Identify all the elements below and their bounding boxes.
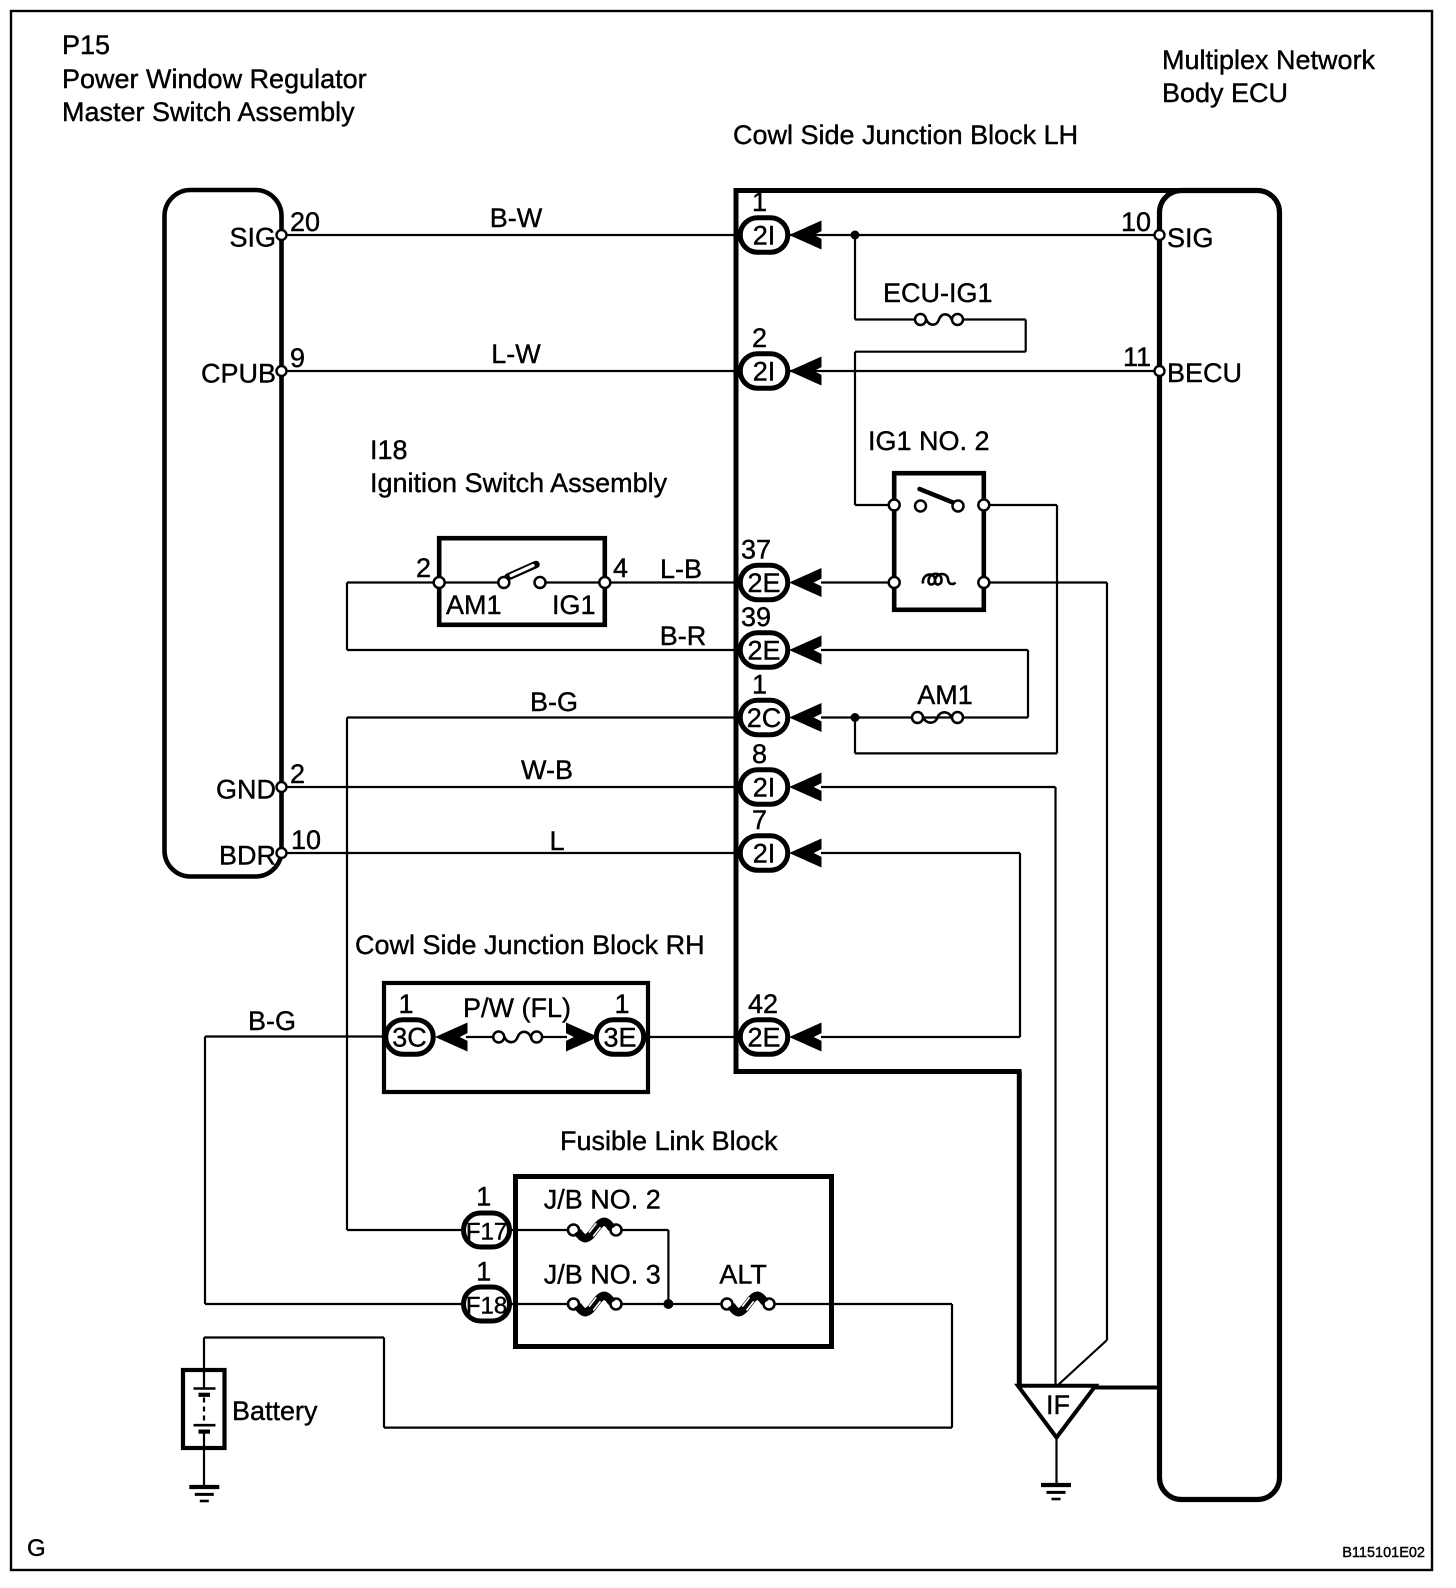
svg-text:Ignition Switch Assembly: Ignition Switch Assembly: [370, 468, 668, 498]
wire from 2E-39 arrow to AM1 loop: [821, 649, 1028, 651]
vertical wire down to relay switch: [854, 352, 856, 505]
ignition switch pin 4: [599, 577, 610, 588]
svg-text:2: 2: [290, 759, 305, 789]
wire from 3E to 2E-42: [650, 1036, 740, 1038]
svg-text:Master Switch Assembly: Master Switch Assembly: [62, 97, 355, 127]
svg-text:L-W: L-W: [491, 339, 541, 369]
wire B-R to 2E-39: [347, 649, 740, 651]
arrow into 2C-1: [792, 705, 821, 731]
wire after J/B NO.2 link: [622, 1229, 669, 1231]
svg-text:Body ECU: Body ECU: [1162, 78, 1288, 108]
bottom horizontal wire to battery branch: [384, 1426, 952, 1428]
arrow into 3C: [438, 1024, 467, 1050]
wire L-B from ignition switch pin 4 to 2E-37: [607, 581, 740, 583]
fusible link ALT: [722, 1296, 775, 1312]
svg-text:1: 1: [752, 670, 767, 700]
svg-text:W-B: W-B: [521, 755, 573, 785]
P15 pin 2 GND: [277, 782, 287, 792]
svg-text:20: 20: [290, 207, 320, 237]
junction dot F18/ALT row: [663, 1299, 673, 1309]
svg-text:4: 4: [613, 553, 628, 583]
junction dot on AM1 wire: [851, 713, 860, 722]
svg-text:42: 42: [748, 989, 778, 1019]
arrow into 2I-1: [792, 222, 821, 248]
svg-text:2I: 2I: [753, 221, 776, 251]
svg-text:Fusible Link Block: Fusible Link Block: [560, 1126, 778, 1156]
relay switch contact right: [953, 501, 964, 512]
svg-text:37: 37: [741, 535, 771, 565]
ignition switch movable blade: [508, 565, 536, 578]
arrow into 2E-42: [792, 1024, 821, 1050]
svg-text:B115101E02: B115101E02: [1342, 1545, 1425, 1561]
svg-text:11: 11: [1123, 342, 1151, 372]
svg-text:SIG: SIG: [229, 223, 276, 253]
ground below IF connector: [1041, 1485, 1071, 1499]
wire relay switch right pin: [984, 504, 1057, 506]
wire B-W from P15 SIG pin 20 to junction block 2I-1 and ECU SIG pin 10: [284, 234, 1157, 236]
arrow into 2E-37: [792, 570, 821, 596]
svg-text:3C: 3C: [392, 1023, 427, 1053]
wire F18 to J/B NO.3 fusible link: [508, 1303, 568, 1305]
svg-text:1: 1: [476, 1257, 491, 1287]
svg-text:B-R: B-R: [660, 621, 707, 651]
connector oval 2I pin 7: [740, 836, 788, 871]
battery dashed middle: [203, 1398, 205, 1424]
ECU pin 10: [1155, 230, 1165, 240]
fusible link J/B NO.3: [568, 1296, 622, 1312]
svg-text:2: 2: [416, 553, 431, 583]
svg-text:ALT: ALT: [719, 1260, 767, 1290]
svg-text:G: G: [27, 1535, 46, 1562]
P15 pin 9 CPUB: [277, 366, 287, 376]
wire inside junction block RH left of P/W fusible link: [466, 1036, 494, 1038]
vertical wire AM1 loop x=1028: [1027, 650, 1029, 718]
svg-text:2: 2: [752, 323, 767, 353]
ignition switch AM1 contact: [498, 577, 509, 588]
ECU pin 11: [1155, 366, 1165, 376]
Cowl Side Junction Block RH box: [384, 983, 648, 1092]
svg-text:CPUB: CPUB: [201, 359, 276, 389]
horizontal wire above battery: [204, 1336, 384, 1338]
wire from 2C-1 arrow through AM1 fuse: [821, 716, 1028, 718]
svg-text:8: 8: [752, 739, 767, 769]
svg-text:2E: 2E: [747, 1023, 780, 1053]
svg-text:J/B NO. 3: J/B NO. 3: [544, 1260, 661, 1290]
battery negative plate bottom: [199, 1429, 211, 1433]
connector oval 2E pin 42: [740, 1020, 788, 1055]
svg-text:3E: 3E: [603, 1023, 636, 1053]
battery bottom lead: [203, 1433, 205, 1487]
svg-text:Multiplex Network: Multiplex Network: [1162, 45, 1376, 75]
wire W-B from 2I-8 arrow to IF drop: [821, 786, 1056, 788]
relay switch blade: [920, 489, 956, 504]
wire to ECU-IG1 fuse: [855, 318, 915, 320]
vertical wire B-G lower down to F18: [204, 1037, 206, 1305]
connector oval 3C pin 1: [386, 1020, 434, 1055]
vertical wire relay coil down: [1106, 583, 1108, 1341]
IF triangle connector: [1018, 1386, 1096, 1438]
vertical wire IF triangle to ground: [1055, 1438, 1057, 1486]
connector oval 2I pin 1: [740, 218, 788, 253]
wire B-G lower to 3C: [205, 1035, 386, 1037]
relay switch contact left: [915, 501, 926, 512]
vertical from AM1 junction dot down: [854, 718, 856, 754]
vertical wire from junction dot down to ECU-IG1 fuse: [854, 235, 856, 320]
arrow into 2E-39: [792, 637, 821, 663]
wire W-B from P15 GND pin 2 to 2I-8: [281, 786, 740, 788]
connector oval 2I pin 2: [740, 354, 788, 389]
Cowl Side Junction Block LH bus down to IF connector: [1017, 1072, 1022, 1388]
wire from 2I-7 arrow to loop: [821, 852, 1020, 854]
svg-text:IG1: IG1: [552, 590, 596, 620]
junction dot on B-W wire: [851, 231, 860, 240]
svg-text:B-G: B-G: [248, 1006, 296, 1036]
wire to F17 connector: [347, 1229, 465, 1231]
svg-text:2E: 2E: [747, 568, 780, 598]
wire relay coil right pin: [984, 581, 1107, 583]
svg-text:B-G: B-G: [530, 687, 578, 717]
svg-text:F17: F17: [466, 1219, 507, 1246]
svg-text:IF: IF: [1046, 1390, 1070, 1420]
svg-text:AM1: AM1: [446, 590, 502, 620]
connector oval 2C pin 1: [740, 700, 788, 735]
arrow into 2I-8: [792, 774, 821, 800]
wire L-W from P15 CPUB pin 9 to 2I-2 and ECU BECU pin 11: [284, 370, 1157, 372]
wire F17 to J/B NO.2 fusible link: [508, 1229, 568, 1231]
wire after ALT fusible link: [775, 1303, 953, 1305]
Cowl Side Junction Block LH outline: [736, 191, 1192, 1072]
connector oval 2E pin 37: [740, 565, 788, 600]
vertical wire J/B NO.2 to F18 row: [667, 1230, 669, 1304]
horizontal wire relay return to AM1 junction: [855, 752, 1057, 754]
ignition switch pin 2: [434, 577, 445, 588]
connector oval 2I pin 8: [740, 770, 788, 805]
P15 pin 20 SIG: [277, 230, 287, 240]
svg-text:2I: 2I: [753, 357, 776, 387]
wire from 2E-37 arrow to relay coil left pin: [821, 581, 894, 583]
ground below battery: [189, 1487, 219, 1501]
Fusible Link Block box: [516, 1177, 832, 1347]
svg-text:1: 1: [614, 989, 629, 1019]
fusible link P/W (FL): [493, 1032, 542, 1043]
svg-text:BECU: BECU: [1167, 358, 1242, 388]
wire loop bottom to 2E-42 arrow: [821, 1036, 1020, 1038]
svg-text:AM1: AM1: [917, 680, 973, 710]
svg-text:10: 10: [291, 825, 321, 855]
arrow into 2I-2: [792, 358, 821, 384]
svg-text:7: 7: [752, 805, 767, 835]
svg-text:Power Window Regulator: Power Window Regulator: [62, 64, 367, 94]
connector oval 3E pin 1: [596, 1020, 644, 1055]
svg-text:SIG: SIG: [1167, 223, 1214, 253]
svg-text:1: 1: [398, 989, 413, 1019]
wire inside junction block RH right of P/W fusible link: [541, 1036, 567, 1038]
svg-text:2C: 2C: [747, 703, 782, 733]
wire L from P15 BDR pin 10 to 2I-7: [281, 852, 740, 854]
svg-text:B-W: B-W: [490, 203, 543, 233]
wire to relay switch left pin: [855, 504, 894, 506]
svg-text:2E: 2E: [747, 636, 780, 666]
P15 Power Window Regulator Master Switch connector body: [165, 190, 282, 877]
relay coil left pin: [889, 577, 900, 588]
wire after ECU-IG1 fuse: [963, 318, 1026, 320]
wire segment ignition switch AM1 contact: [437, 581, 500, 583]
P15 pin 10 BDR: [277, 848, 287, 858]
fusible link J/B NO.2: [568, 1222, 622, 1238]
svg-text:Cowl Side Junction Block LH: Cowl Side Junction Block LH: [733, 120, 1078, 150]
Cowl Side Junction Block LH bottom edge: [734, 1069, 1022, 1074]
I18 Ignition Switch Assembly box: [439, 538, 605, 625]
vertical jog after ECU-IG1 fuse: [1025, 320, 1027, 352]
svg-text:9: 9: [290, 343, 305, 373]
svg-text:I18: I18: [370, 435, 408, 465]
svg-text:J/B NO. 2: J/B NO. 2: [544, 1185, 661, 1215]
svg-text:L: L: [549, 826, 564, 856]
svg-text:BDR: BDR: [219, 841, 276, 871]
Multiplex Network Body ECU body: [1160, 191, 1280, 1500]
svg-text:F18: F18: [466, 1293, 507, 1320]
svg-text:10: 10: [1121, 207, 1151, 237]
svg-text:2I: 2I: [753, 773, 776, 803]
battery positive plate top: [194, 1387, 216, 1390]
svg-text:L-B: L-B: [660, 554, 702, 584]
vertical wire down from ALT row: [951, 1304, 953, 1428]
vertical wire relay switch return: [1056, 505, 1058, 753]
vertical wire loop x=1020: [1019, 853, 1021, 1037]
svg-text:ECU-IG1: ECU-IG1: [883, 278, 993, 308]
wire from IF connector to Body ECU: [1096, 1386, 1158, 1390]
vertical wire B-G down to F17: [346, 718, 348, 1231]
svg-text:GND: GND: [216, 775, 276, 805]
vertical wire battery branch: [383, 1338, 385, 1428]
relay switch left pin: [889, 500, 900, 511]
svg-text:IG1 NO. 2: IG1 NO. 2: [868, 426, 990, 456]
battery negative plate top: [199, 1393, 211, 1397]
svg-text:1: 1: [476, 1182, 491, 1212]
relay coil winding: [923, 574, 956, 585]
svg-text:Battery: Battery: [232, 1396, 318, 1426]
svg-text:P15: P15: [62, 30, 110, 60]
relay coil right pin: [978, 577, 989, 588]
fuse ECU-IG1: [915, 314, 963, 325]
connector oval F18: [464, 1287, 510, 1321]
horizontal jog back left: [855, 351, 1026, 353]
arrow into 3E: [567, 1024, 596, 1050]
svg-text:39: 39: [741, 602, 771, 632]
diagonal wire into IF connector: [1058, 1340, 1107, 1385]
svg-text:P/W (FL): P/W (FL): [463, 993, 571, 1023]
svg-text:1: 1: [752, 187, 767, 217]
wire segment ignition switch IG1 contact: [544, 581, 607, 583]
vertical wire W-B down to IF connector: [1054, 787, 1056, 1386]
ignition switch IG1 contact: [535, 577, 546, 588]
fuse AM1: [912, 712, 963, 723]
wire J/B NO.3 to ALT: [622, 1303, 722, 1305]
wire to F18 connector: [205, 1303, 465, 1305]
svg-text:Cowl Side Junction Block RH: Cowl Side Junction Block RH: [355, 930, 705, 960]
arrow into 2I-7: [792, 840, 821, 866]
relay switch right pin: [978, 500, 989, 511]
connector oval F17: [464, 1213, 510, 1247]
wire B-G upper to 2C-1: [347, 716, 740, 718]
connector oval 2E pin 39: [740, 633, 788, 668]
Battery box: [183, 1370, 225, 1448]
wire from ignition switch pin 2 to the left: [347, 581, 437, 583]
svg-text:2I: 2I: [753, 839, 776, 869]
vertical wire pin2 down to B-R: [346, 583, 348, 651]
IG1 NO.2 relay box: [894, 473, 984, 610]
battery positive plate bottom: [194, 1424, 216, 1427]
vertical wire into battery positive: [203, 1338, 205, 1390]
